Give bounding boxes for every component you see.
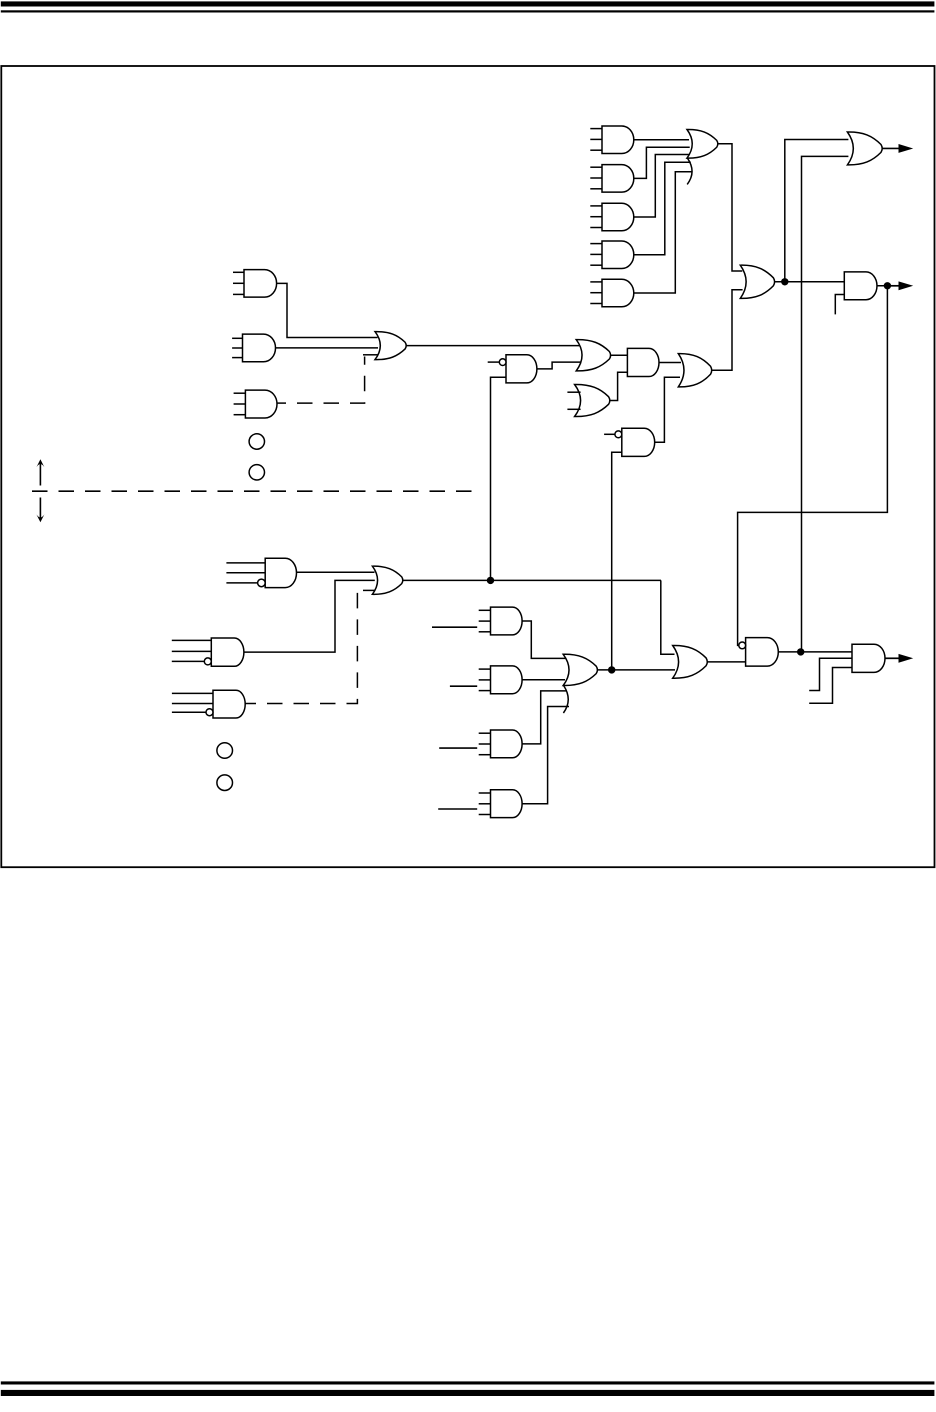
wire U1 output to U6 input 1 [634,139,689,141]
junction node J3 [608,666,615,673]
wire U19 bottom input from node J4 [802,156,849,652]
AND gate U12 with inverted top input [488,355,537,383]
wire U5 output to U6 input 5 [634,172,692,293]
output arrow A3 [885,654,913,663]
wire V3 output to U25 input 3 [522,691,567,744]
3-input AND gate V1 [479,607,522,635]
3-input AND gate V3 [479,730,522,758]
wire V1 output to U25 input 1 [522,621,566,658]
3-input AND gate U4 [590,241,634,269]
divider down arrow [36,498,44,523]
3-input OR gate U23 [372,566,402,594]
wire U23 output to node J5 to U24 top input [403,579,661,581]
wire U26 output to node J4 to U27 top input [778,651,852,653]
wire U7 output to U10 top input [277,283,378,337]
U18 lower input stub [835,295,844,315]
wire V2 output to U25 input 2 [522,679,565,681]
wire feedback node J2 to U22 inverted input [738,286,888,646]
input line to V4 [438,808,477,810]
wire U21 output to U23 middle input [244,580,375,652]
2-input OR gate U11 [576,340,610,371]
divider up arrow [36,459,44,485]
wire U4 output to U6 input 4 [634,162,691,255]
wire U11 output to U14 top input [611,354,628,356]
wire U8 output to U10 middle input [276,347,379,349]
wire U2 output to U6 input 2 [634,147,690,178]
3-input AND gate U20 with inverted bottom input [226,558,296,587]
3-input OR gate U10 [375,332,406,360]
wire U15 output to U13 bottom input [712,290,743,371]
5-input OR gate U6 [687,129,718,184]
U27 bottom input stub [809,668,852,704]
wire U22b output stub [245,703,256,705]
ellipsis circle 3 [217,743,233,759]
wire U12 bottom input from node J5 [491,377,507,580]
ellipsis circle 2 [249,465,264,480]
3-input AND gate U7 [233,270,277,298]
dashed wire U22b output to U23 bottom input [256,592,357,704]
wire stub into U23 bottom input [363,589,375,591]
junction node J1 [781,278,788,285]
3-input AND gate U27 [852,644,885,672]
3-input AND gate U21 with inverted bottom input [172,638,244,666]
dashed wire U9 output to U10 bottom input [286,357,365,404]
wire U9 output stub [277,402,286,404]
2-input OR gate U15 [678,354,711,387]
AND gate U26 with inverted top input [739,638,779,667]
input line to V3 [439,747,477,749]
wire U10 output to U11 top input [406,345,580,347]
3-input AND gate U3 [590,203,633,231]
dashed divider line [32,490,475,492]
wire U13 output to node J1 and U18 input [775,281,845,283]
junction node J2 [884,282,891,289]
wire U12 output to U11 bottom input [537,362,581,369]
AND gate U17 with inverted top input [604,428,655,456]
2-input OR gate U24 [673,645,708,678]
3-input AND gate U2 [590,165,634,193]
output arrow A1 [882,144,913,153]
wire stub into U10 bottom input [363,354,379,356]
3-input AND gate U1 [590,126,634,154]
wire U14 output to U15 top input [659,361,681,363]
3-input AND gate U9 [234,390,277,418]
wire U6 output to U13 top input [718,144,743,271]
3-input AND gate V2 [479,666,522,694]
wire U20 output to U23 top input [297,571,375,573]
wire into U24 top input [661,580,675,654]
wire U25 output to node J3 to U24 bottom input [597,669,675,671]
2-input AND gate U14 [627,348,659,376]
output arrow A2 [890,281,913,290]
wire node J1 up to U19 top input [785,140,849,282]
3-input AND gate V4 [479,790,522,818]
wire U17 output to U15 bottom input [655,377,680,442]
ellipsis circle 1 [249,434,264,449]
2-input AND gate U18 [844,272,877,300]
wire U3 output to U6 input 3 [634,155,691,218]
junction node J5 [487,577,494,584]
2-input OR gate U16 [567,384,609,416]
3-input AND gate U5 [590,279,634,307]
2-input OR gate U13 mid-right [740,265,774,298]
3-input AND gate U8 [232,334,275,362]
junction node J4 [797,648,804,655]
4-input OR gate U25 [563,654,597,713]
2-input OR gate U19 [847,132,882,165]
input line to V1 [432,626,477,628]
wire U17 bottom input from node J3 [612,452,622,670]
wire U18 output to node J2 [877,285,899,287]
ellipsis circle 4 [217,775,233,791]
input line to V2 [450,685,477,687]
wire V4 output to U25 input 4 [522,707,569,804]
3-input AND gate U22b with inverted bottom input [172,690,245,718]
U27 middle input stub [809,658,852,690]
wire U24 output to U26 bottom input [707,661,745,663]
wire U16 output to U14 bottom input [610,372,628,400]
